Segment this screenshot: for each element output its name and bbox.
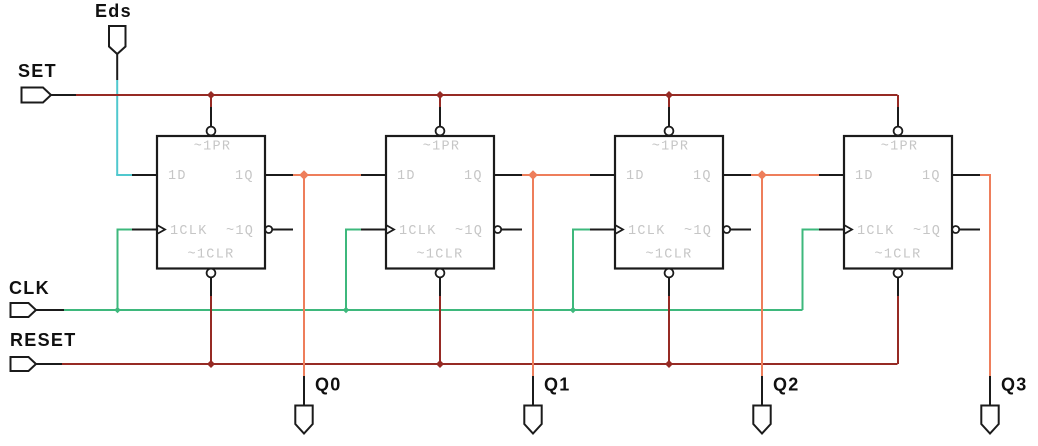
svg-text:SET: SET bbox=[18, 61, 57, 81]
junction CLK net at U3 riser bbox=[570, 307, 576, 313]
U2 pin 1D stub bbox=[361, 174, 386, 176]
U2 pin ~1PR bubble bbox=[436, 127, 445, 136]
svg-text:1D: 1D bbox=[168, 169, 187, 184]
U2 pin 1Q stub bbox=[494, 174, 522, 176]
U2 clock edge triangle bbox=[386, 225, 394, 234]
U1 pin 1CLK stub bbox=[132, 229, 157, 231]
wire CLK net riser to U3 pin 1CLK bbox=[572, 230, 590, 311]
U3 pin ~1CLR bubble bbox=[665, 269, 674, 278]
U3 pin ~1Q stub bbox=[730, 229, 751, 231]
svg-text:1CLK: 1CLK bbox=[628, 224, 666, 239]
U3 pin 1D stub bbox=[590, 174, 615, 176]
wire SET net drop to U3 pin ~1PR bbox=[668, 95, 670, 127]
svg-text:~1PR: ~1PR bbox=[194, 140, 232, 155]
U4 pin ~1PR bubble bbox=[894, 127, 903, 136]
U1 clock edge triangle bbox=[157, 225, 165, 234]
wire SET net horizontal (dark red) bbox=[76, 94, 898, 96]
input connector CLK bbox=[11, 303, 65, 317]
svg-text:RESET: RESET bbox=[10, 330, 77, 350]
U1 pin 1Q stub bbox=[265, 174, 293, 176]
wire CLK net riser to U4 pin 1CLK bbox=[802, 230, 820, 311]
svg-text:1Q: 1Q bbox=[922, 169, 941, 184]
U4 pin ~1Q bubble bbox=[952, 226, 959, 233]
svg-text:~1CLR: ~1CLR bbox=[416, 248, 463, 263]
wire Q3 net from U4 pin 1Q (orange) bbox=[980, 174, 991, 376]
U4 pin ~1Q stub bbox=[959, 229, 980, 231]
output connector Q2 bbox=[753, 376, 770, 434]
svg-text:~1CLR: ~1CLR bbox=[874, 248, 921, 263]
wire Q1 net from U2 pin 1Q (orange) bbox=[522, 175, 590, 376]
U4 clock edge triangle bbox=[844, 225, 852, 234]
svg-text:Q2: Q2 bbox=[773, 375, 800, 395]
wire RESET net riser to U4 pin ~1CLR bbox=[897, 278, 899, 365]
svg-text:~1CLR: ~1CLR bbox=[645, 248, 692, 263]
U2 pin ~1Q stub bbox=[501, 229, 522, 231]
svg-text:1CLK: 1CLK bbox=[399, 224, 437, 239]
wire CLK net riser to U1 pin 1CLK bbox=[117, 230, 133, 311]
U2 pin ~1Q bubble bbox=[494, 226, 501, 233]
U3 pin 1Q stub bbox=[723, 174, 751, 176]
svg-text:~1PR: ~1PR bbox=[652, 140, 690, 155]
D flip-flop U1 bbox=[132, 127, 293, 278]
D flip-flop U4 bbox=[819, 127, 980, 278]
svg-text:1Q: 1Q bbox=[464, 169, 483, 184]
output connector Q0 bbox=[295, 376, 312, 434]
svg-text:1D: 1D bbox=[626, 169, 645, 184]
junction RESET net at U1 bbox=[207, 360, 215, 368]
junction CLK net at U2 riser bbox=[343, 307, 349, 313]
U3 clock edge triangle bbox=[615, 225, 623, 234]
output connector Q1 bbox=[524, 376, 541, 434]
junction CLK net at U1 riser bbox=[114, 307, 120, 313]
wire Q0 net from U1 pin 1Q (orange) bbox=[293, 175, 361, 376]
junction RESET net at U3 bbox=[665, 360, 673, 368]
U4 pin 1D stub bbox=[819, 174, 844, 176]
wire RESET net riser to U1 pin ~1CLR bbox=[210, 278, 212, 365]
input connector RESET bbox=[11, 357, 63, 371]
U4 pin ~1CLR bubble bbox=[894, 269, 903, 278]
U2 pin 1CLK stub bbox=[361, 229, 386, 231]
U1 pin ~1Q bubble bbox=[265, 226, 272, 233]
svg-text:Eds: Eds bbox=[95, 1, 132, 21]
junction SET net at U1 bbox=[207, 91, 215, 99]
U3 pin ~1PR bubble bbox=[665, 127, 674, 136]
U4 pin 1Q stub bbox=[952, 174, 980, 176]
svg-text:1Q: 1Q bbox=[235, 169, 254, 184]
wire Eds net (cyan) to U1 pin 1D bbox=[116, 80, 132, 175]
svg-text:~1Q: ~1Q bbox=[455, 224, 483, 239]
svg-text:CLK: CLK bbox=[9, 278, 50, 298]
U1 pin 1D stub bbox=[132, 174, 157, 176]
wire SET net drop to U1 pin ~1PR bbox=[210, 95, 212, 127]
junction Q0 node bbox=[299, 170, 309, 180]
svg-text:~1CLR: ~1CLR bbox=[187, 248, 234, 263]
input connector Eds bbox=[109, 26, 126, 80]
input connector SET bbox=[22, 88, 77, 103]
svg-text:1Q: 1Q bbox=[693, 169, 712, 184]
svg-text:1D: 1D bbox=[397, 169, 416, 184]
output connector Q3 bbox=[981, 376, 998, 434]
junction RESET net at U2 bbox=[436, 360, 444, 368]
wire SET net drop to U2 pin ~1PR bbox=[439, 95, 441, 127]
U1 pin ~1PR bubble bbox=[207, 127, 216, 136]
svg-text:Q0: Q0 bbox=[315, 375, 342, 395]
svg-text:~1Q: ~1Q bbox=[226, 224, 254, 239]
svg-text:1D: 1D bbox=[855, 169, 874, 184]
svg-text:~1PR: ~1PR bbox=[423, 140, 461, 155]
U1 pin ~1CLR bubble bbox=[207, 269, 216, 278]
svg-text:Q1: Q1 bbox=[544, 375, 571, 395]
U4 pin 1CLK stub bbox=[819, 229, 844, 231]
svg-text:1CLK: 1CLK bbox=[857, 224, 895, 239]
wire CLK net horizontal (teal) bbox=[64, 309, 803, 311]
junction SET net at U2 bbox=[436, 91, 444, 99]
junction Q2 node bbox=[757, 170, 767, 180]
U3 pin ~1Q bubble bbox=[723, 226, 730, 233]
wire RESET net riser to U3 pin ~1CLR bbox=[668, 278, 670, 365]
svg-text:Q3: Q3 bbox=[1001, 375, 1028, 395]
wire Q2 net from U3 pin 1Q (orange) bbox=[751, 175, 819, 376]
svg-text:~1Q: ~1Q bbox=[913, 224, 941, 239]
U3 pin 1CLK stub bbox=[590, 229, 615, 231]
D flip-flop U3 bbox=[590, 127, 751, 278]
svg-text:~1Q: ~1Q bbox=[684, 224, 712, 239]
wire SET net drop to U4 pin ~1PR bbox=[897, 95, 899, 127]
wire RESET net horizontal (dark red) bbox=[62, 363, 898, 365]
junction Q1 node bbox=[528, 170, 538, 180]
svg-text:~1PR: ~1PR bbox=[881, 140, 919, 155]
U2 pin ~1CLR bubble bbox=[436, 269, 445, 278]
wire CLK net riser to U2 pin 1CLK bbox=[345, 230, 361, 311]
junction SET net at U3 bbox=[665, 91, 673, 99]
wire RESET net riser to U2 pin ~1CLR bbox=[439, 278, 441, 365]
svg-text:1CLK: 1CLK bbox=[170, 224, 208, 239]
D flip-flop U2 bbox=[361, 127, 522, 278]
U1 pin ~1Q stub bbox=[272, 229, 293, 231]
